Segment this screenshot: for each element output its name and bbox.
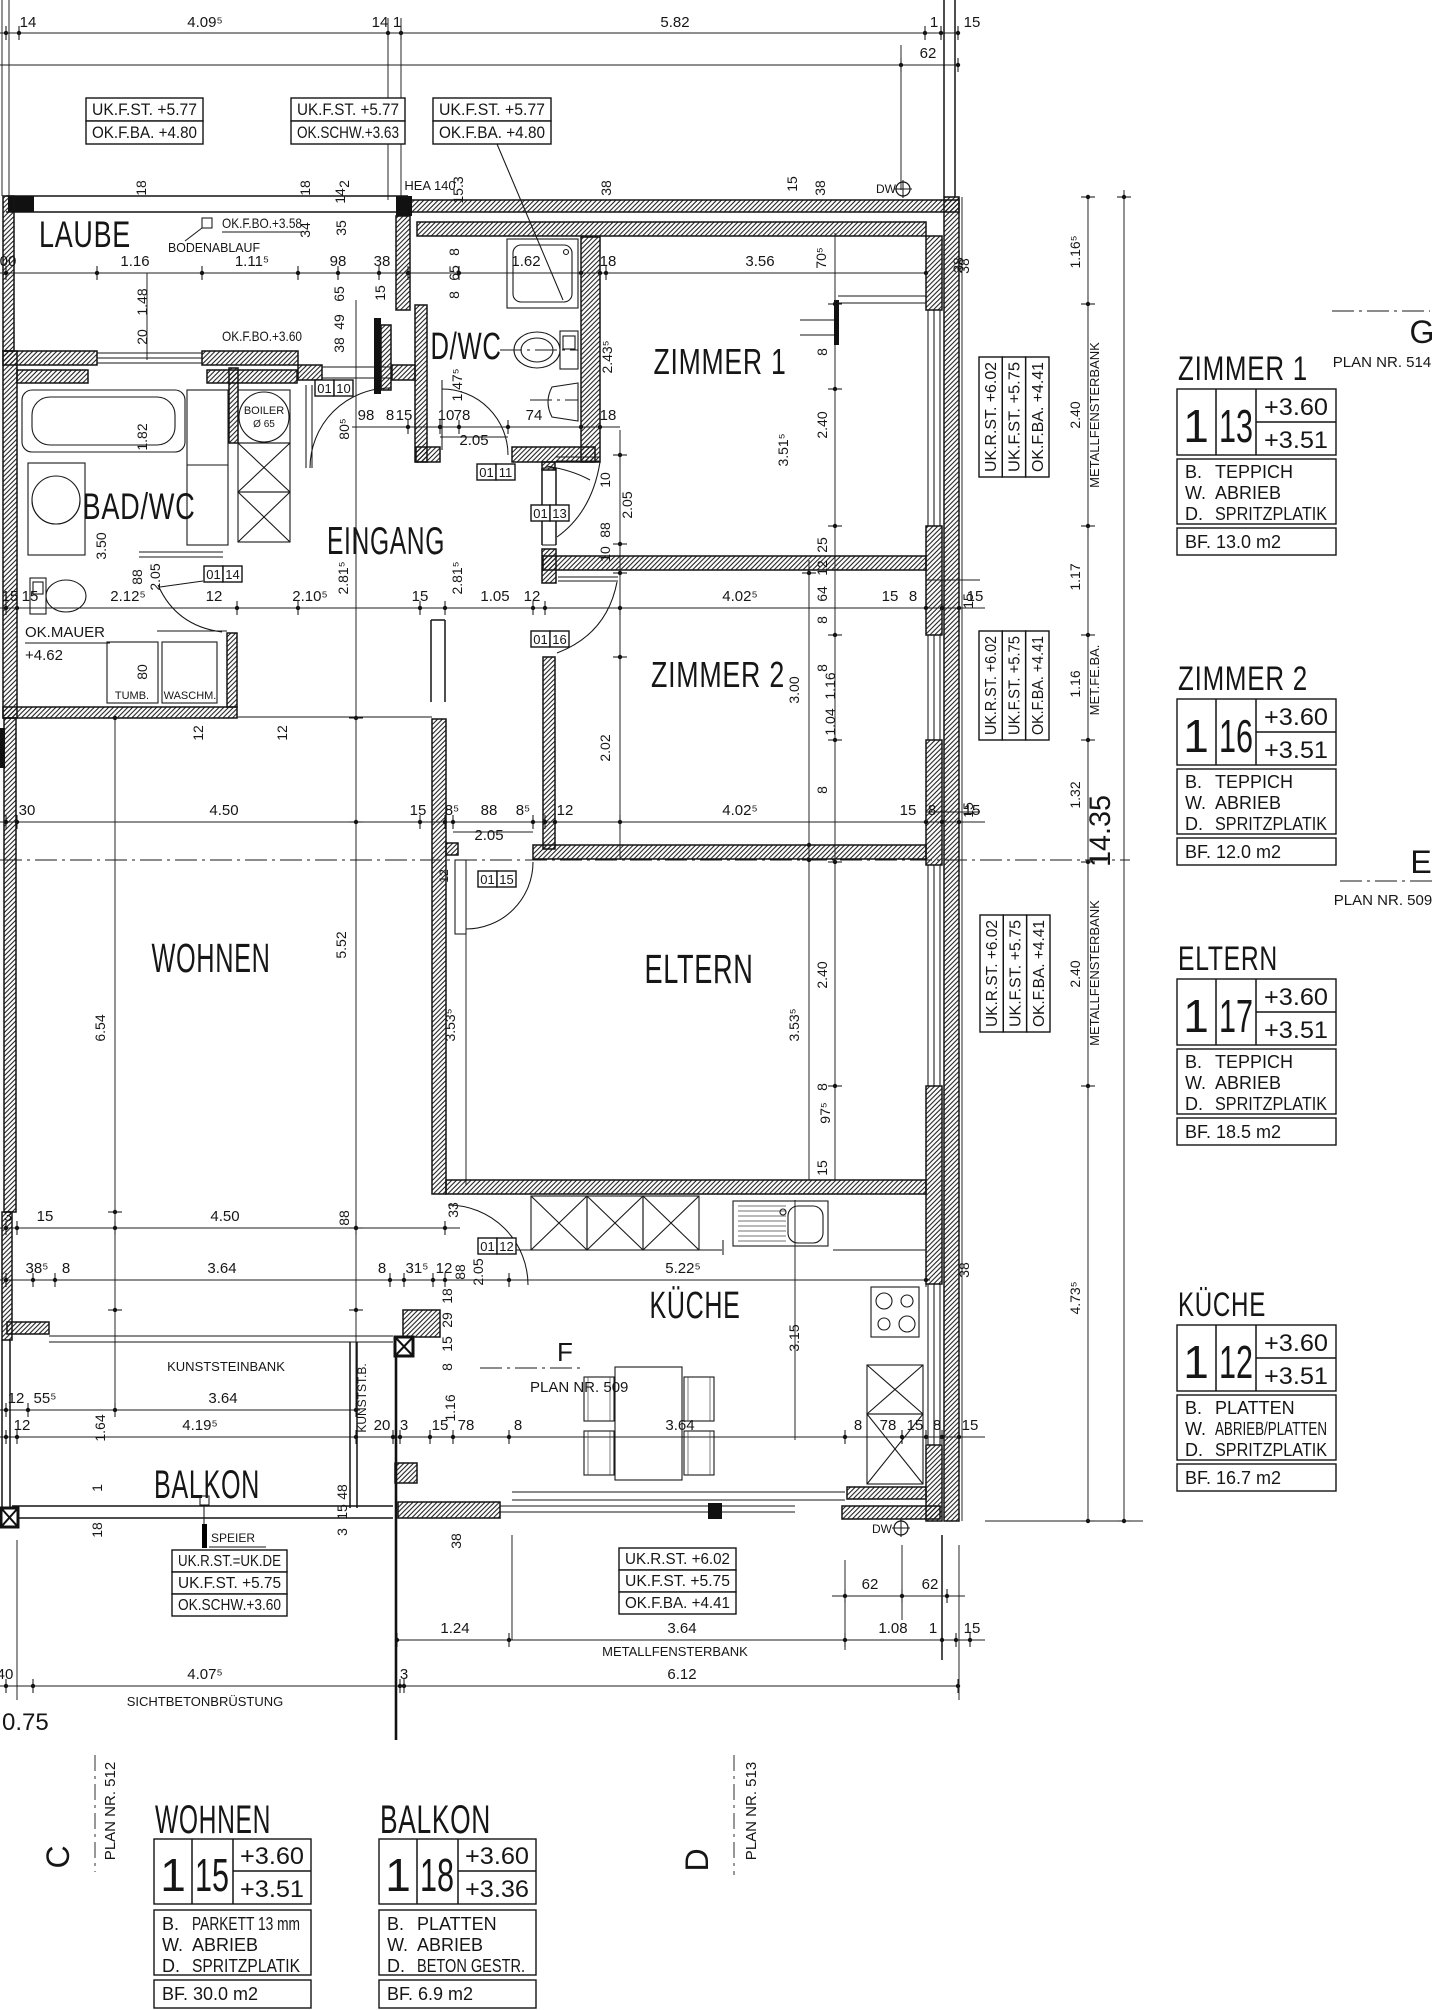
svg-text:15: 15 bbox=[195, 1849, 229, 1901]
svg-text:2.40: 2.40 bbox=[814, 961, 830, 988]
laube bottom wall right piece bbox=[202, 351, 298, 365]
svg-text:4.02⁵: 4.02⁵ bbox=[722, 802, 757, 819]
svg-text:OK.MAUER: OK.MAUER bbox=[25, 624, 105, 641]
svg-text:OK.SCHW.+3.63: OK.SCHW.+3.63 bbox=[297, 123, 399, 142]
svg-text:UK.R.ST.=UK.DE: UK.R.ST.=UK.DE bbox=[178, 1553, 281, 1570]
svg-text:PLAN NR. 509: PLAN NR. 509 bbox=[530, 1379, 628, 1396]
svg-text:1: 1 bbox=[1183, 1336, 1209, 1388]
zimmer2 door 01|16 leaf bbox=[558, 576, 618, 578]
svg-text:+4.62: +4.62 bbox=[25, 647, 63, 664]
post black bbox=[708, 1503, 722, 1519]
svg-text:5.22⁵: 5.22⁵ bbox=[665, 1260, 700, 1277]
svg-text:ZIMMER 1: ZIMMER 1 bbox=[654, 341, 787, 382]
door label 01|15 bbox=[478, 871, 497, 887]
balcony left edge bbox=[1, 1340, 3, 1508]
svg-text:PLAN NR. 514: PLAN NR. 514 bbox=[1333, 354, 1431, 371]
svg-text:1: 1 bbox=[929, 1620, 937, 1637]
svg-text:1: 1 bbox=[393, 14, 401, 31]
steel bar black bbox=[374, 318, 381, 394]
svg-text:1: 1 bbox=[160, 1849, 186, 1901]
svg-text:2.10⁵: 2.10⁵ bbox=[292, 588, 327, 605]
svg-text:1.16⁵: 1.16⁵ bbox=[1067, 235, 1083, 268]
svg-text:ZIMMER 2: ZIMMER 2 bbox=[651, 654, 785, 695]
svg-text:12: 12 bbox=[190, 725, 206, 741]
svg-text:1.62: 1.62 bbox=[511, 253, 540, 270]
svg-text:12: 12 bbox=[524, 588, 541, 605]
svg-text:UK.R.ST. +6.02: UK.R.ST. +6.02 bbox=[983, 362, 1000, 472]
top outer wall band bbox=[408, 200, 959, 212]
svg-text:SPEIER: SPEIER bbox=[211, 1531, 255, 1545]
washbasin dwc bbox=[548, 383, 578, 421]
section marker G bbox=[1332, 310, 1430, 312]
svg-text:W.: W. bbox=[1185, 1073, 1206, 1093]
svg-text:4.50: 4.50 bbox=[209, 802, 238, 819]
svg-text:3.64: 3.64 bbox=[208, 1390, 237, 1407]
svg-text:BALKON: BALKON bbox=[154, 1463, 260, 1507]
building axis dash-dot bbox=[0, 859, 1130, 861]
svg-text:1: 1 bbox=[1183, 400, 1209, 452]
laube top-left black block bbox=[8, 196, 34, 212]
svg-text:01: 01 bbox=[480, 872, 494, 887]
section marker C bbox=[94, 1755, 96, 1872]
zimmer1 door 01|13 arc bbox=[557, 462, 600, 537]
top inner wall band bbox=[417, 222, 926, 236]
door label 01|16 bbox=[531, 631, 550, 647]
svg-text:SPRITZPLATIK: SPRITZPLATIK bbox=[1215, 1094, 1327, 1114]
svg-text:1.82: 1.82 bbox=[134, 423, 150, 450]
svg-text:SPRITZPLATIK: SPRITZPLATIK bbox=[1215, 504, 1327, 524]
svg-text:15: 15 bbox=[412, 588, 429, 605]
divider wall end cap bbox=[542, 549, 556, 583]
svg-text:1.05: 1.05 bbox=[480, 588, 509, 605]
svg-text:2.12⁵: 2.12⁵ bbox=[110, 588, 145, 605]
dwc door 01|11 arc bbox=[441, 380, 443, 450]
door label 01|11 bbox=[477, 464, 496, 480]
level box bottom left bbox=[172, 1550, 287, 1572]
level box 2 top bbox=[291, 98, 405, 121]
washbasin bad/wc bbox=[28, 463, 85, 555]
vertical dim x356 5.52 bbox=[355, 300, 357, 1410]
kitchen counter X boxes bbox=[531, 1196, 587, 1250]
svg-text:UK.R.ST. +6.02: UK.R.ST. +6.02 bbox=[984, 920, 1001, 1027]
svg-text:70⁵: 70⁵ bbox=[813, 247, 829, 268]
shower dwc bbox=[507, 239, 578, 308]
svg-text:5.82: 5.82 bbox=[660, 14, 689, 31]
kueche bottom wall left step bbox=[398, 1502, 500, 1518]
HEA140 steel column bbox=[396, 196, 412, 216]
svg-text:+3.36: +3.36 bbox=[465, 1876, 529, 1903]
tumbler box bbox=[107, 642, 158, 703]
zimmer1/zimmer2 divider wall bbox=[543, 556, 926, 570]
zimmer1 door 01|13 leaf bbox=[556, 456, 600, 458]
svg-text:10: 10 bbox=[597, 472, 613, 488]
svg-text:D: D bbox=[679, 1848, 715, 1871]
svg-text:BOILER: BOILER bbox=[244, 405, 284, 417]
kitchen tall unit X lower bbox=[867, 1414, 923, 1484]
dwc corridor swing arc bbox=[546, 466, 590, 480]
svg-text:TEPPICH: TEPPICH bbox=[1215, 1052, 1293, 1072]
svg-text:16: 16 bbox=[552, 632, 566, 647]
svg-text:78: 78 bbox=[458, 1417, 475, 1434]
svg-text:01: 01 bbox=[480, 1239, 494, 1254]
svg-text:01: 01 bbox=[206, 567, 220, 582]
svg-text:BALKON: BALKON bbox=[380, 1798, 491, 1842]
svg-text:8: 8 bbox=[814, 1083, 830, 1091]
svg-text:2.02: 2.02 bbox=[597, 734, 613, 761]
closet divider wall bbox=[229, 368, 238, 443]
dimension line y1280 kitchen counters bbox=[0, 1279, 930, 1281]
svg-text:78: 78 bbox=[454, 407, 471, 424]
svg-text:+3.51: +3.51 bbox=[1264, 1017, 1328, 1044]
svg-text:88: 88 bbox=[597, 522, 613, 538]
svg-text:SPRITZPLATIK: SPRITZPLATIK bbox=[1215, 814, 1327, 834]
svg-text:SPRITZPLATIK: SPRITZPLATIK bbox=[1215, 1440, 1327, 1460]
svg-text:PLATTEN: PLATTEN bbox=[417, 1914, 497, 1934]
svg-text:G: G bbox=[1410, 314, 1435, 350]
svg-text:3.64: 3.64 bbox=[667, 1620, 696, 1637]
svg-text:38: 38 bbox=[812, 180, 828, 196]
svg-text:HEA 140: HEA 140 bbox=[404, 178, 455, 193]
svg-text:+3.60: +3.60 bbox=[465, 1843, 529, 1870]
svg-text:+3.60: +3.60 bbox=[1264, 984, 1328, 1011]
svg-text:3.56: 3.56 bbox=[745, 253, 774, 270]
dimension line y608 EINGANG bbox=[0, 607, 985, 609]
kitchen sill lines bbox=[500, 1505, 795, 1507]
svg-text:10: 10 bbox=[438, 407, 455, 424]
svg-text:UK.F.ST. +5.75: UK.F.ST. +5.75 bbox=[1007, 362, 1024, 472]
svg-text:TUMB.: TUMB. bbox=[115, 690, 149, 702]
svg-text:8: 8 bbox=[814, 664, 830, 672]
svg-text:D.: D. bbox=[387, 1956, 405, 1976]
svg-text:1.11⁵: 1.11⁵ bbox=[235, 253, 269, 270]
svg-text:8: 8 bbox=[814, 348, 830, 356]
laube window sill lines bbox=[97, 352, 202, 354]
svg-text:18: 18 bbox=[133, 180, 149, 196]
svg-text:8: 8 bbox=[439, 1363, 455, 1371]
kitchen-balcony wall bar bbox=[395, 1357, 398, 1740]
svg-text:18: 18 bbox=[89, 1522, 105, 1538]
cabinet with X below boiler lower bbox=[238, 492, 290, 542]
svg-text:18: 18 bbox=[420, 1849, 454, 1901]
svg-text:3.64: 3.64 bbox=[207, 1260, 236, 1277]
svg-text:4.73⁵: 4.73⁵ bbox=[1067, 1281, 1083, 1314]
svg-text:1.17: 1.17 bbox=[1067, 563, 1083, 590]
svg-text:8: 8 bbox=[62, 1260, 70, 1277]
svg-text:+3.51: +3.51 bbox=[1264, 1363, 1328, 1390]
svg-text:12: 12 bbox=[274, 725, 290, 741]
left edge black mark bbox=[0, 728, 5, 768]
door label 01|12 bbox=[478, 1238, 497, 1254]
svg-text:15: 15 bbox=[37, 1208, 54, 1225]
svg-text:01: 01 bbox=[533, 506, 547, 521]
vertical guide lines top bbox=[1, 0, 3, 196]
dwc right wall bbox=[581, 237, 600, 462]
level box bottom right bbox=[619, 1548, 736, 1570]
dimension line y1228 bbox=[0, 1227, 460, 1229]
svg-text:18: 18 bbox=[297, 180, 313, 196]
svg-text:38: 38 bbox=[331, 337, 347, 353]
bad/wc door 01|14 arc bbox=[158, 585, 222, 632]
corridor partition white wall bbox=[541, 468, 543, 545]
svg-text:TEPPICH: TEPPICH bbox=[1215, 772, 1293, 792]
svg-text:4.02⁵: 4.02⁵ bbox=[722, 588, 757, 605]
svg-text:80⁵: 80⁵ bbox=[336, 418, 352, 439]
svg-text:6.54: 6.54 bbox=[92, 1014, 108, 1041]
entry wall piece left bbox=[298, 365, 322, 380]
svg-text:OK.F.BA. +4.41: OK.F.BA. +4.41 bbox=[1031, 920, 1048, 1027]
svg-text:C: C bbox=[40, 1845, 76, 1868]
svg-text:UK.F.ST. +5.77: UK.F.ST. +5.77 bbox=[439, 100, 545, 119]
svg-text:8: 8 bbox=[854, 1417, 862, 1434]
tall cabinet bbox=[187, 390, 228, 545]
svg-text:D.: D. bbox=[1185, 1440, 1203, 1460]
svg-text:PLAN NR. 513: PLAN NR. 513 bbox=[743, 1762, 760, 1860]
svg-text:OK.F.BA. +4.41: OK.F.BA. +4.41 bbox=[1030, 362, 1047, 472]
entry wall piece right / connection to DWC bbox=[392, 365, 415, 380]
svg-text:17: 17 bbox=[1219, 990, 1253, 1042]
level box 1 top bbox=[86, 98, 203, 121]
svg-text:1: 1 bbox=[1183, 990, 1209, 1042]
svg-text:1: 1 bbox=[930, 14, 938, 31]
dwc left wall lower bbox=[415, 305, 427, 462]
svg-text:12: 12 bbox=[557, 802, 574, 819]
svg-text:8⁵: 8⁵ bbox=[445, 802, 460, 819]
dimension line y822 WOHNEN/Z2 bbox=[0, 821, 985, 823]
svg-text:B.: B. bbox=[162, 1914, 179, 1934]
laube left wall bbox=[3, 196, 14, 351]
svg-text:01: 01 bbox=[317, 381, 331, 396]
svg-text:12: 12 bbox=[14, 1417, 31, 1434]
svg-text:W.: W. bbox=[1185, 1419, 1206, 1439]
dwc bottom wall right piece bbox=[512, 447, 595, 462]
svg-text:12: 12 bbox=[1219, 1336, 1253, 1388]
dimension line y1686 bottom major bbox=[0, 1685, 958, 1687]
svg-text:3.51⁵: 3.51⁵ bbox=[775, 433, 791, 466]
right wall pillar eltern/kueche bbox=[926, 1086, 942, 1284]
svg-text:BAD/WC: BAD/WC bbox=[83, 486, 196, 527]
laube top edge bbox=[6, 195, 408, 197]
svg-text:3.15: 3.15 bbox=[786, 1324, 802, 1351]
level box 3 top bbox=[433, 98, 551, 121]
svg-text:14: 14 bbox=[225, 567, 239, 582]
svg-text:ABRIEB: ABRIEB bbox=[1215, 1073, 1281, 1093]
svg-text:88: 88 bbox=[452, 1264, 468, 1280]
svg-text:BF. 18.5 m2: BF. 18.5 m2 bbox=[1185, 1122, 1281, 1142]
svg-text:3.00: 3.00 bbox=[786, 676, 802, 703]
svg-text:13: 13 bbox=[552, 506, 566, 521]
svg-text:8: 8 bbox=[378, 1260, 386, 1277]
svg-text:1: 1 bbox=[385, 1849, 411, 1901]
svg-text:3.50: 3.50 bbox=[93, 532, 109, 559]
svg-text:METALLFENSTERBANK: METALLFENSTERBANK bbox=[602, 1644, 748, 1659]
svg-text:1.16: 1.16 bbox=[1067, 670, 1083, 697]
svg-text:1.64: 1.64 bbox=[92, 1414, 108, 1441]
svg-text:UK.F.ST. +5.77: UK.F.ST. +5.77 bbox=[92, 100, 197, 119]
washing machine box bbox=[162, 642, 217, 703]
svg-text:D.: D. bbox=[1185, 504, 1203, 524]
svg-text:W.: W. bbox=[1185, 483, 1206, 503]
dimension line y273 LAUBE/DWC/Z1 bbox=[0, 272, 926, 274]
svg-text:EINGANG: EINGANG bbox=[327, 520, 445, 563]
kitchen hob bbox=[871, 1287, 919, 1337]
svg-text:1.08: 1.08 bbox=[878, 1620, 907, 1637]
door label leader 01|14 bbox=[160, 581, 203, 587]
door label 01|13 bbox=[531, 505, 550, 521]
svg-text:1.48: 1.48 bbox=[134, 288, 150, 315]
svg-text:20: 20 bbox=[134, 329, 150, 345]
dimension line y427 DWC bottom dims bbox=[352, 426, 620, 428]
main entry door 01|10 leaf bbox=[305, 385, 307, 468]
svg-text:4.19⁵: 4.19⁵ bbox=[182, 1417, 217, 1434]
svg-text:12: 12 bbox=[499, 1239, 513, 1254]
svg-text:15: 15 bbox=[900, 802, 917, 819]
svg-text:65: 65 bbox=[446, 265, 462, 281]
svg-text:01: 01 bbox=[533, 632, 547, 647]
svg-text:1.16: 1.16 bbox=[822, 672, 838, 699]
eingang-wohnen boundary line bbox=[237, 716, 432, 718]
svg-text:1.04: 1.04 bbox=[822, 708, 838, 735]
kueche balcony door lines bbox=[512, 1491, 845, 1493]
svg-text:ABRIEB/PLATTEN: ABRIEB/PLATTEN bbox=[1215, 1419, 1327, 1439]
wohnen left wall bbox=[4, 718, 16, 1212]
svg-text:+3.60: +3.60 bbox=[1264, 394, 1328, 421]
rotated level boxes right side bbox=[979, 357, 1002, 477]
entry door sill lines bbox=[322, 366, 392, 368]
balcony right edge double line bbox=[349, 1342, 351, 1508]
svg-text:+3.51: +3.51 bbox=[1264, 737, 1328, 764]
svg-text:16: 16 bbox=[1219, 710, 1253, 762]
svg-text:B.: B. bbox=[1185, 1052, 1202, 1072]
svg-text:10: 10 bbox=[336, 381, 350, 396]
svg-text:8: 8 bbox=[814, 786, 830, 794]
svg-text:BF. 12.0 m2: BF. 12.0 m2 bbox=[1185, 842, 1281, 862]
svg-text:1: 1 bbox=[1183, 710, 1209, 762]
svg-text:PARKETT 13 mm: PARKETT 13 mm bbox=[192, 1914, 300, 1934]
right wall outer layer bbox=[944, 197, 959, 1521]
svg-text:80: 80 bbox=[134, 664, 150, 680]
svg-text:15: 15 bbox=[964, 14, 981, 31]
svg-text:98: 98 bbox=[358, 407, 375, 424]
svg-text:15: 15 bbox=[334, 1504, 350, 1520]
svg-text:65: 65 bbox=[331, 286, 347, 302]
svg-text:ABRIEB: ABRIEB bbox=[417, 1935, 483, 1955]
svg-text:METALLFENSTERBANK: METALLFENSTERBANK bbox=[1087, 900, 1102, 1046]
svg-text:PLAN NR. 509: PLAN NR. 509 bbox=[1334, 892, 1432, 909]
svg-text:+3.51: +3.51 bbox=[1264, 427, 1328, 454]
cabinet with X below boiler upper bbox=[238, 443, 290, 492]
svg-text:KÜCHE: KÜCHE bbox=[650, 1285, 741, 1327]
balcony parapet lines bbox=[12, 1505, 393, 1507]
svg-text:D.: D. bbox=[1185, 814, 1203, 834]
closet top edge bbox=[157, 630, 227, 632]
svg-text:15: 15 bbox=[960, 593, 976, 609]
zimmer2 bottom wall bbox=[533, 845, 926, 859]
dimension line top second bbox=[0, 64, 958, 66]
svg-text:15: 15 bbox=[962, 1417, 979, 1434]
svg-text:OK.F.BO.+3.60: OK.F.BO.+3.60 bbox=[222, 328, 302, 344]
hatch wedge next to bar bbox=[381, 325, 391, 390]
eingang east shaft bbox=[430, 620, 432, 702]
balcony column black box bbox=[395, 1337, 413, 1356]
svg-text:4.50: 4.50 bbox=[210, 1208, 239, 1225]
laube bottom wall left piece bbox=[3, 351, 97, 365]
wohnen left wall lower part bbox=[2, 1212, 12, 1340]
svg-text:2.05: 2.05 bbox=[474, 827, 503, 844]
svg-text:PLAN NR. 512: PLAN NR. 512 bbox=[102, 1762, 119, 1860]
svg-text:15: 15 bbox=[814, 1160, 830, 1176]
svg-text:98: 98 bbox=[330, 253, 347, 270]
svg-text:D.: D. bbox=[162, 1956, 180, 1976]
svg-text:15: 15 bbox=[784, 176, 800, 192]
laube lower band right bbox=[207, 370, 297, 383]
svg-text:ELTERN: ELTERN bbox=[1178, 940, 1278, 978]
eltern door stub bbox=[446, 843, 458, 855]
svg-text:15: 15 bbox=[964, 1620, 981, 1637]
svg-text:ABRIEB: ABRIEB bbox=[1215, 483, 1281, 503]
svg-text:PLATTEN: PLATTEN bbox=[1215, 1398, 1295, 1418]
svg-text:0.75: 0.75 bbox=[2, 1709, 49, 1736]
svg-text:18: 18 bbox=[600, 253, 617, 270]
bad/wc door 01|14 leaf bbox=[139, 551, 223, 553]
svg-text:62: 62 bbox=[922, 1576, 939, 1593]
svg-text:W.: W. bbox=[1185, 793, 1206, 813]
svg-text:25: 25 bbox=[814, 537, 830, 553]
svg-text:TEPPICH: TEPPICH bbox=[1215, 462, 1293, 482]
svg-text:+3.51: +3.51 bbox=[240, 1876, 304, 1903]
svg-text:38: 38 bbox=[448, 1533, 464, 1549]
right wall pillar z2/eltern bbox=[926, 740, 942, 865]
svg-text:E: E bbox=[1410, 844, 1431, 880]
svg-text:64: 64 bbox=[814, 586, 830, 602]
right wall window glass eltern bbox=[927, 865, 929, 1086]
svg-text:8: 8 bbox=[446, 291, 462, 299]
eltern door jamb dim line bbox=[465, 860, 467, 1185]
svg-text:20: 20 bbox=[374, 1417, 391, 1434]
svg-text:KUNSTSTEINBANK: KUNSTSTEINBANK bbox=[167, 1359, 285, 1374]
svg-text:OK.F.BA. +4.80: OK.F.BA. +4.80 bbox=[92, 123, 197, 142]
svg-text:18: 18 bbox=[600, 407, 617, 424]
svg-text:6.12: 6.12 bbox=[667, 1666, 696, 1683]
svg-text:12: 12 bbox=[437, 869, 451, 883]
kitchen sink unit bbox=[733, 1201, 828, 1246]
door label 01|10 bbox=[315, 380, 334, 396]
right wall pillar kueche corner bbox=[926, 1445, 942, 1521]
svg-text:KÜCHE: KÜCHE bbox=[1178, 1286, 1266, 1324]
svg-text:1.16: 1.16 bbox=[442, 1394, 458, 1421]
svg-text:14.35: 14.35 bbox=[1084, 795, 1117, 867]
svg-text:UK.F.ST. +5.75: UK.F.ST. +5.75 bbox=[625, 1573, 730, 1590]
dimension line y1640 bbox=[395, 1639, 985, 1641]
svg-text:UK.F.ST. +5.75: UK.F.ST. +5.75 bbox=[1008, 920, 1025, 1027]
svg-text:3: 3 bbox=[400, 1666, 408, 1683]
svg-text:SPRITZPLATIK: SPRITZPLATIK bbox=[192, 1956, 300, 1976]
svg-text:33: 33 bbox=[445, 1202, 461, 1218]
dimension line y1410 balcony bbox=[0, 1409, 360, 1411]
svg-text:OK.F.BA. +4.80: OK.F.BA. +4.80 bbox=[439, 123, 545, 142]
svg-text:ZIMMER 2: ZIMMER 2 bbox=[1178, 660, 1308, 698]
svg-text:40: 40 bbox=[0, 1666, 13, 1683]
svg-text:2.05: 2.05 bbox=[459, 432, 488, 449]
wc bad/wc bbox=[30, 578, 46, 614]
svg-text:12: 12 bbox=[436, 1260, 453, 1277]
zimmer2 left wall bbox=[543, 657, 555, 849]
balcony SW black X block bbox=[1, 1508, 18, 1527]
left parapet extension line bbox=[16, 1540, 18, 1700]
right wall pillar zimmer1 corner bbox=[926, 236, 942, 310]
zimmer1 window sill lines bbox=[838, 295, 926, 297]
vertical dim x620 corridor bbox=[619, 430, 621, 860]
svg-text:WOHNEN: WOHNEN bbox=[152, 935, 271, 981]
